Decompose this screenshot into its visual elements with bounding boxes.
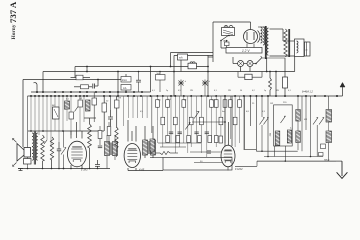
capacitor C10 star xyxy=(178,80,187,97)
svg-text:2m: 2m xyxy=(158,100,161,102)
svg-text:1m: 1m xyxy=(196,111,199,113)
svg-text:0,1: 0,1 xyxy=(288,90,291,92)
wire top bus W3 xyxy=(23,80,121,148)
svg-text:0,1: 0,1 xyxy=(152,90,155,92)
svg-text:mA: mA xyxy=(179,57,183,60)
wire xfmr top xyxy=(28,130,104,132)
capacitor C11 star xyxy=(202,80,211,97)
title text Horny xyxy=(11,24,17,39)
mains switch S1 xyxy=(220,35,230,42)
resistor R10 hzigzag xyxy=(150,151,178,154)
wire riser x174 xyxy=(173,56,175,97)
svg-text:0,5: 0,5 xyxy=(178,90,181,92)
svg-text:0,2: 0,2 xyxy=(252,90,255,92)
meter M1 xyxy=(178,54,188,60)
capacitor C15 xyxy=(319,144,326,156)
value label band xyxy=(152,90,291,92)
rectifier tube U5 xyxy=(244,30,260,48)
wire riser x87 xyxy=(86,66,88,73)
wires right mid xyxy=(302,96,317,157)
coil L3 xyxy=(0,0,1,1)
svg-text:4 A5: 4 A5 xyxy=(139,168,145,172)
wire power mid xyxy=(221,41,244,49)
wires left coil bank xyxy=(28,96,85,169)
label 500 xyxy=(269,133,271,136)
wire riser x208 xyxy=(207,55,209,96)
IF transformer IF2 top xyxy=(296,110,301,122)
speaker lead arrow bottom xyxy=(13,163,17,167)
bus end up arrow xyxy=(336,83,345,97)
IF transformer IF2 bot xyxy=(296,131,301,143)
coil L2 xyxy=(86,100,91,111)
wire feed to power xyxy=(171,53,214,56)
field coil L20 xyxy=(284,29,290,57)
resistor R22 xyxy=(262,58,288,96)
voltage selector 12V box xyxy=(226,48,262,54)
power transformer T100 xyxy=(258,26,269,59)
tone switch S2 xyxy=(255,56,262,64)
svg-text:cm: cm xyxy=(305,50,308,52)
trimmer TR6 xyxy=(319,118,324,125)
value labels xyxy=(66,98,307,130)
resistor R3b zigzag xyxy=(50,137,53,160)
svg-text:1W: 1W xyxy=(118,98,121,100)
wire power frame xyxy=(208,22,251,62)
svg-text:0,1: 0,1 xyxy=(214,90,217,92)
wire mixer b xyxy=(160,146,186,148)
wire lamps xyxy=(233,57,256,64)
ground arrow xyxy=(336,161,347,178)
label 4 A5 xyxy=(139,168,145,172)
coil L4 xyxy=(150,139,155,152)
svg-text:F HO2: F HO2 xyxy=(235,167,243,171)
trimmer TR4 xyxy=(281,116,286,123)
trimmer TR1 xyxy=(75,105,80,112)
svg-text:6=46A 1,2: 6=46A 1,2 xyxy=(302,91,314,94)
wire xfmr to speaker bot xyxy=(270,55,295,57)
wires center forest xyxy=(124,96,244,157)
svg-text:737 A: 737 A xyxy=(8,1,18,23)
wire bottom left bus xyxy=(18,168,110,170)
wire riser x170 xyxy=(170,53,172,68)
speaker lead arrow top xyxy=(13,138,17,142)
tube U1 xyxy=(124,120,140,171)
capacitor C5 xyxy=(108,96,113,126)
wire right bot b xyxy=(264,156,323,158)
wire osc bottom a xyxy=(245,149,257,151)
label 6-46A xyxy=(302,91,314,94)
label NW0 xyxy=(324,159,329,161)
wire riser x150 xyxy=(150,66,152,92)
svg-text:1 2 V: 1 2 V xyxy=(242,49,250,53)
resistor R2c xyxy=(92,92,97,122)
wire bottom mid bus xyxy=(128,170,163,172)
wires right-center xyxy=(245,96,269,157)
box mA xyxy=(121,85,131,91)
wire bus A y92 xyxy=(31,91,151,93)
resistor R2 xyxy=(69,112,74,119)
wire meters xyxy=(125,74,127,92)
speaker SP1 xyxy=(17,144,31,165)
IF transformer IF3 xyxy=(326,96,332,161)
svg-text:4m: 4m xyxy=(222,111,225,113)
svg-text:1W: 1W xyxy=(270,103,273,105)
bus A junction dots xyxy=(36,91,143,93)
title text 737 A xyxy=(8,1,18,23)
capacitor C3 xyxy=(57,142,61,169)
wire loop stub xyxy=(150,157,163,159)
capacitor C2 xyxy=(93,84,98,89)
svg-text:2W: 2W xyxy=(228,90,231,92)
fuse F1 xyxy=(223,39,229,45)
antenna xyxy=(34,83,38,93)
wire y118 xyxy=(84,117,96,119)
svg-text:4W: 4W xyxy=(304,119,307,121)
trimmer TR2 xyxy=(260,96,265,151)
wire speaker gnd xyxy=(18,169,23,171)
wire arrow x47 xyxy=(44,140,47,144)
tube U4 xyxy=(68,122,87,169)
svg-text:2mA: 2mA xyxy=(122,79,127,82)
label 1 383 xyxy=(81,168,88,172)
wire meter drop xyxy=(180,60,182,72)
resistor R9 zigzag xyxy=(115,127,118,157)
resistor R5 xyxy=(102,96,107,131)
filter box B1 xyxy=(238,72,262,80)
speaker unit SP2 xyxy=(305,42,311,56)
capacitor C30 xyxy=(156,71,166,92)
band switch SW1 xyxy=(52,105,59,119)
wire c2 up xyxy=(97,79,99,86)
osc frame box xyxy=(274,105,293,161)
resistor row three xyxy=(166,136,218,143)
svg-text:NW=0: NW=0 xyxy=(324,159,329,161)
output transformer box xyxy=(295,39,305,57)
wire top bus W1 xyxy=(75,67,208,78)
svg-text:500: 500 xyxy=(269,133,271,136)
resistor R6 xyxy=(115,96,120,128)
wire top bus W2 xyxy=(43,57,295,93)
coil L5b xyxy=(275,131,280,146)
svg-text:1W: 1W xyxy=(190,90,193,92)
trimmer row xyxy=(185,112,199,130)
wire right bot a xyxy=(256,150,297,152)
resistor R4 zigzag xyxy=(88,118,92,169)
wire riser x118 xyxy=(117,71,119,96)
bus junction dots xyxy=(30,95,338,97)
label F HO2 xyxy=(235,167,243,171)
resistor row mid xyxy=(161,117,237,125)
capacitor C1 xyxy=(71,75,91,80)
resistor R8 xyxy=(107,122,111,145)
output transformer TR2 xyxy=(32,132,38,165)
pilot lamp LA1 xyxy=(238,61,244,67)
trimmer TR0 xyxy=(61,131,66,169)
electrolytic can C20 xyxy=(222,26,235,36)
svg-text:1 383: 1 383 xyxy=(81,168,88,172)
svg-text:2W: 2W xyxy=(79,98,82,100)
resistor R7 xyxy=(98,126,102,148)
resistor R21 xyxy=(269,71,272,96)
svg-text:50: 50 xyxy=(240,90,242,92)
trimmer TR3 xyxy=(264,118,269,125)
resistor R1 xyxy=(74,85,92,89)
box 2mA xyxy=(121,77,131,83)
wire mixer c xyxy=(194,162,222,164)
svg-text:BO: BO xyxy=(52,105,55,107)
svg-text:4W: 4W xyxy=(276,90,279,92)
wire if2 leads xyxy=(297,96,299,150)
label 220 xyxy=(283,102,287,104)
box U2 grid xyxy=(219,136,223,143)
wire bus B y96 xyxy=(28,95,343,97)
IF transformer IF1 xyxy=(143,133,156,158)
coil L1 xyxy=(65,101,70,109)
capacitor C4 xyxy=(95,160,100,169)
resistor row top xyxy=(156,100,242,108)
coil L5 xyxy=(287,130,291,143)
resistor R3 zigzag xyxy=(41,135,45,161)
wire mixer a xyxy=(158,142,201,144)
svg-text:Horny: Horny xyxy=(11,24,17,39)
wire loop bottom xyxy=(163,158,232,171)
capacitor C31 xyxy=(136,71,141,92)
wire U2 cathode xyxy=(235,161,257,166)
wire bot left risers xyxy=(43,160,52,169)
trimmer TR5 xyxy=(313,118,318,125)
tube U2 xyxy=(190,96,235,167)
svg-text:mA: mA xyxy=(123,87,127,90)
IF transformer IF0 xyxy=(105,135,118,169)
wire right bot c xyxy=(257,160,336,162)
wire xfmr to speaker top xyxy=(270,29,295,41)
resistor R2b xyxy=(78,100,83,107)
resistor R20 on W1 xyxy=(188,62,197,69)
pilot lamp LA2 xyxy=(247,61,253,67)
wire if1 feeds xyxy=(145,96,153,133)
capacitor C16 xyxy=(207,151,211,153)
capacitor row xyxy=(169,132,209,134)
wire heater drops xyxy=(241,58,277,97)
